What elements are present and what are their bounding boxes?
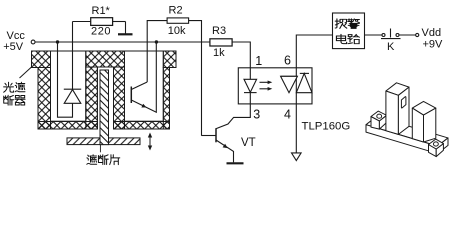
svg-text:R3: R3 [212, 25, 226, 37]
svg-text:TLP160G: TLP160G [302, 121, 351, 133]
svg-text:6: 6 [284, 53, 291, 67]
svg-text:1k: 1k [213, 47, 225, 59]
svg-text:K: K [387, 41, 395, 53]
svg-text:Vdd: Vdd [422, 27, 442, 39]
svg-text:1: 1 [255, 54, 262, 68]
svg-text:220: 220 [91, 26, 111, 38]
svg-text:4: 4 [284, 107, 291, 121]
svg-text:R2: R2 [169, 5, 183, 17]
svg-text:3: 3 [253, 107, 260, 121]
svg-text:+5V: +5V [3, 41, 24, 53]
svg-text:R1*: R1* [92, 5, 111, 17]
svg-text:VT: VT [241, 137, 256, 149]
svg-text:10k: 10k [168, 25, 186, 37]
svg-text:+9V: +9V [423, 39, 444, 51]
